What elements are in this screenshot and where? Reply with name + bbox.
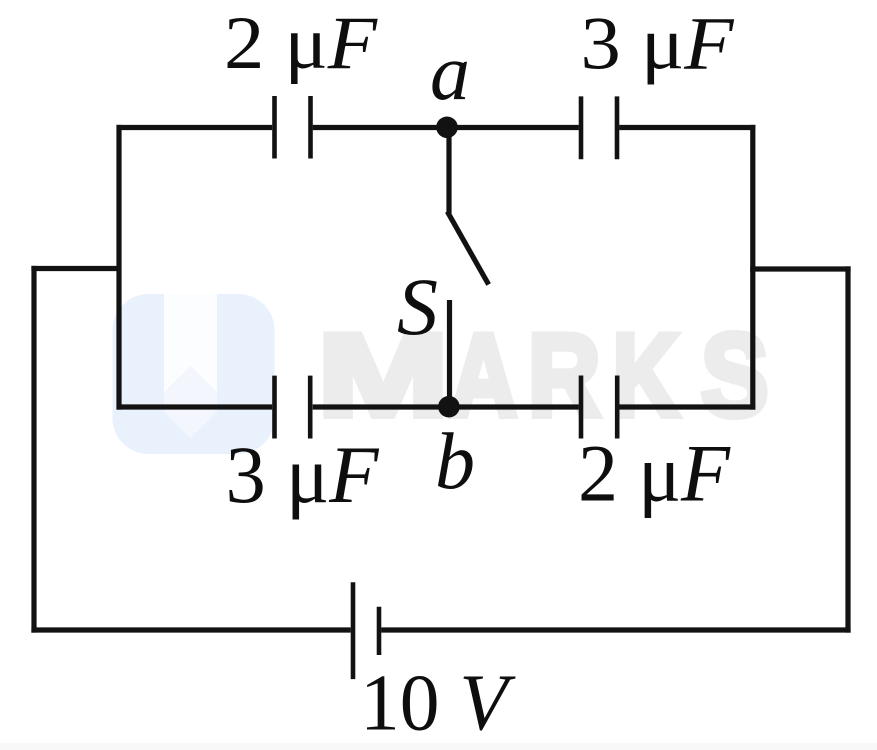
wire middle-left segment <box>117 404 273 409</box>
svg-text:K: K <box>613 310 680 441</box>
node a junction dot <box>436 117 458 139</box>
svg-text:S: S <box>397 261 438 352</box>
svg-text:2 μF: 2 μF <box>224 2 378 85</box>
battery V1 long plate <box>351 582 356 679</box>
watermark logo square <box>113 294 275 454</box>
svg-text:3 μF: 3 μF <box>581 3 735 86</box>
wire inner-right vertical <box>750 125 755 410</box>
svg-text:2 μF: 2 μF <box>578 428 731 519</box>
capacitor C4 2uF left plate <box>579 376 584 439</box>
wire outer-left vertical <box>31 266 36 633</box>
capacitor C3 3uF left plate <box>272 376 277 439</box>
switch S lower lead <box>447 300 452 407</box>
capacitor C2 3uF right plate <box>615 96 620 159</box>
wire inner-left vertical <box>116 125 121 410</box>
svg-text:b: b <box>435 418 475 506</box>
svg-text:3 μF: 3 μF <box>226 429 380 520</box>
watermark MARKS text <box>318 310 769 441</box>
svg-text:R: R <box>528 310 601 441</box>
wire bottom-left segment <box>31 627 350 632</box>
svg-text:10 V: 10 V <box>360 658 516 748</box>
capacitor C2 3uF left plate <box>579 96 584 159</box>
capacitor C3 3uF right plate <box>308 376 313 439</box>
wire middle-right segment <box>619 404 755 409</box>
wire right connector <box>750 266 850 271</box>
svg-text:a: a <box>430 29 470 117</box>
node b junction dot <box>438 396 460 418</box>
capacitor C1 2uF left plate <box>272 96 277 159</box>
switch S upper lead <box>446 125 451 214</box>
svg-text:S: S <box>701 310 769 441</box>
wire outer-right vertical <box>845 266 850 632</box>
wire top-right segment <box>619 125 755 130</box>
wire top-left segment <box>117 125 273 130</box>
wire left connector <box>31 266 121 271</box>
wire top-middle segment <box>313 125 579 130</box>
switch S blade <box>447 212 488 285</box>
wire bottom-right segment <box>381 627 850 632</box>
battery V1 short plate <box>377 607 382 655</box>
capacitor C1 2uF right plate <box>308 96 313 159</box>
capacitor C4 2uF right plate <box>615 376 620 439</box>
wire middle-center segment <box>313 404 579 409</box>
watermark bottom strip <box>0 743 877 750</box>
